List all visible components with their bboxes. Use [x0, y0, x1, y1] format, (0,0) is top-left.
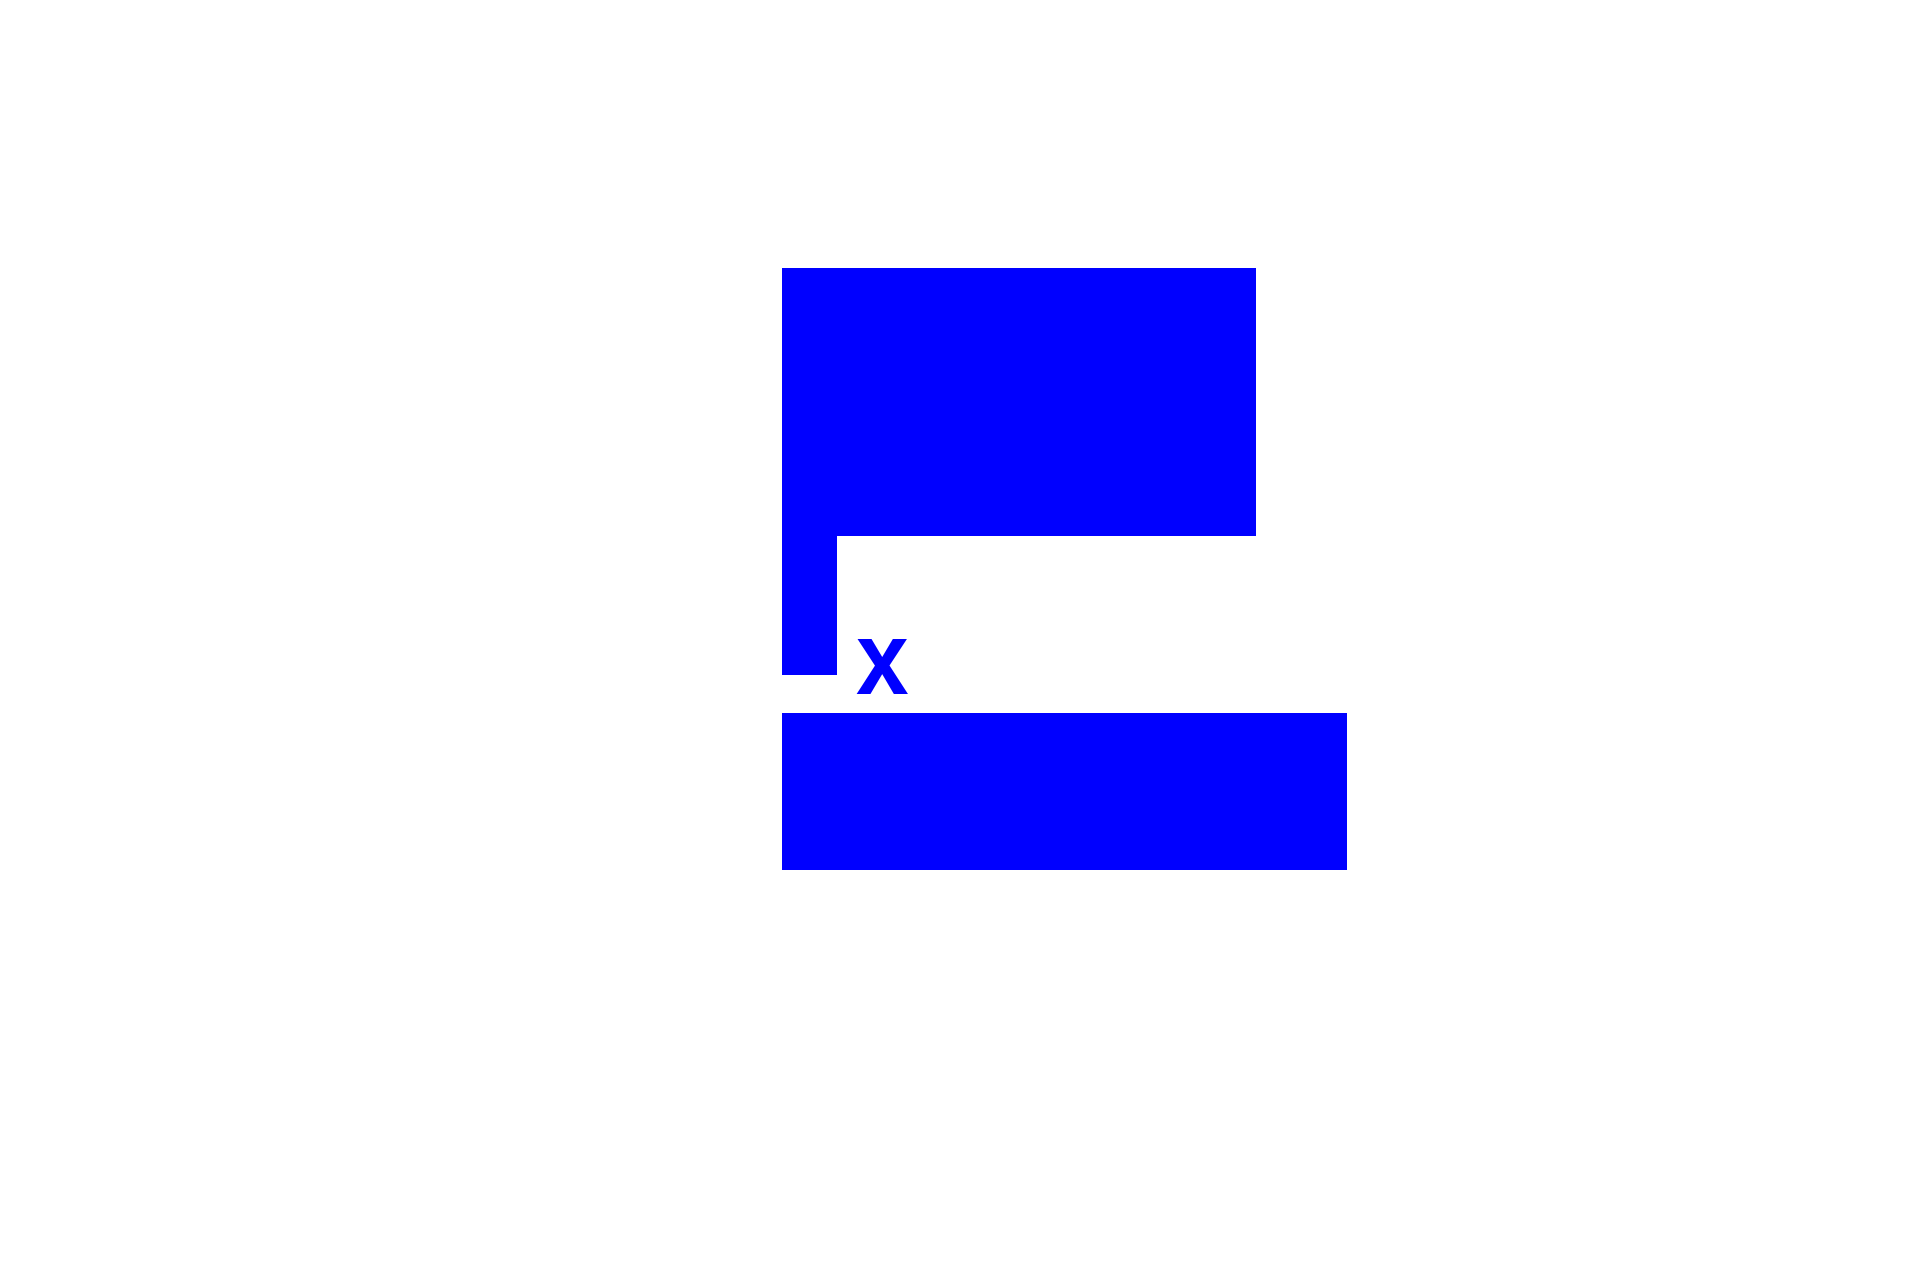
large blue block (top rectangle) [782, 268, 1256, 536]
letter x [857, 640, 914, 711]
wide blue bar (bottom rectangle) [782, 713, 1347, 870]
blue pole block (below-left tab) [782, 536, 837, 675]
